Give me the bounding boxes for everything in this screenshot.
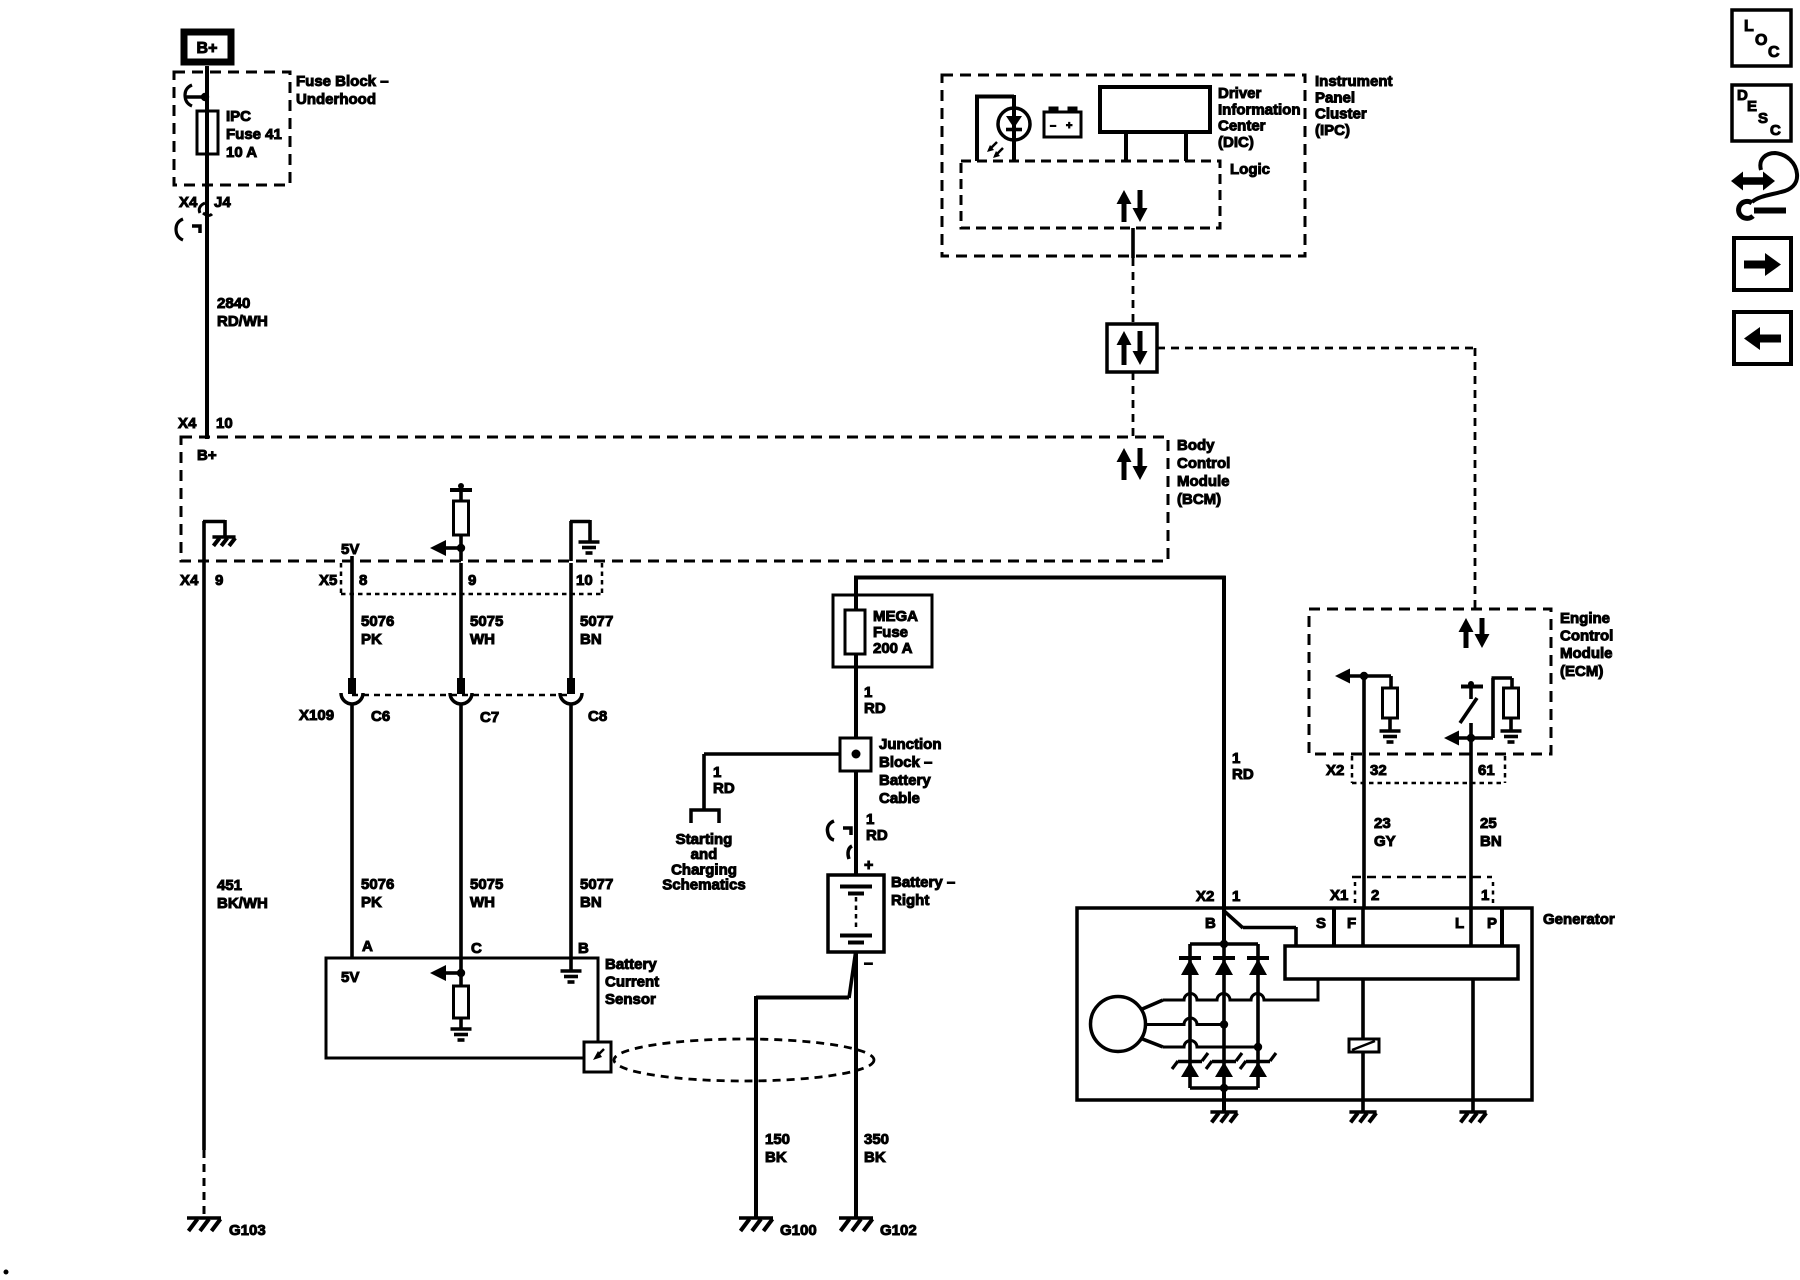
wire 5077 BN lower: [569, 704, 573, 959]
svg-text:Center: Center: [1218, 118, 1266, 135]
svg-text:+: +: [1066, 120, 1072, 132]
Body Control Module BCM box: [181, 437, 1168, 561]
rectifier branches: [1188, 944, 1192, 1088]
svg-text:Generator: Generator: [1543, 911, 1615, 928]
svg-text:Schematics: Schematics: [662, 877, 745, 894]
svg-text:X4: X4: [179, 194, 198, 211]
connector X4 J4 inline hooks: [199, 203, 205, 213]
fuse IPC Fuse 41 10 A: [205, 111, 209, 154]
svg-text:X2: X2: [1196, 888, 1214, 905]
stator phase 3: [1140, 1038, 1163, 1047]
svg-text:C6: C6: [371, 708, 390, 725]
svg-text:Control: Control: [1177, 455, 1230, 472]
wire 23 GY: [1362, 754, 1366, 908]
page mark: [4, 1270, 9, 1275]
svg-text:5075: 5075: [470, 613, 503, 630]
svg-text:BN: BN: [580, 894, 602, 911]
svg-text:5075: 5075: [470, 876, 503, 893]
svg-text:10 A: 10 A: [226, 144, 257, 161]
svg-text:X109: X109: [299, 707, 334, 724]
svg-text:BK: BK: [864, 1149, 886, 1166]
svg-text:MEGA: MEGA: [873, 608, 918, 625]
battery telltale icon: [1044, 112, 1081, 137]
svg-text:G100: G100: [780, 1222, 817, 1239]
svg-text:PK: PK: [361, 894, 382, 911]
wire battery to grounds: [854, 952, 858, 1217]
svg-text:+: +: [864, 857, 873, 874]
svg-text:B: B: [1205, 915, 1216, 932]
svg-text:–: –: [1050, 120, 1056, 132]
svg-text:X4: X4: [180, 572, 199, 589]
ground G103: [187, 1216, 221, 1220]
voltage regulator: [1285, 946, 1518, 979]
svg-text:1: 1: [864, 684, 872, 701]
svg-text:Engine: Engine: [1560, 610, 1610, 627]
svg-text:Sensor: Sensor: [605, 991, 656, 1008]
fuse block terminal clip: [185, 85, 192, 106]
DIC display: [1100, 87, 1210, 132]
svg-text:Underhood: Underhood: [296, 91, 376, 108]
DESC icon: [1732, 85, 1791, 141]
rectifier top rail: [1190, 942, 1258, 946]
wire L to ground: [1469, 908, 1473, 946]
Engine Control Module ECM box: [1309, 609, 1551, 754]
svg-text:9: 9: [215, 572, 223, 589]
svg-text:(ECM): (ECM): [1560, 663, 1603, 680]
wire 5076 PK upper: [350, 563, 354, 680]
svg-text:BN: BN: [1480, 833, 1502, 850]
svg-text:150: 150: [765, 1131, 790, 1148]
BCM internal resistor to supply above pin 9: [459, 548, 463, 561]
svg-text:GY: GY: [1374, 833, 1396, 850]
svg-text:5076: 5076: [361, 876, 394, 893]
generator ground field: [1361, 1100, 1365, 1111]
generator ground L: [1471, 1100, 1475, 1111]
wire F to regulator and field: [1361, 908, 1365, 946]
svg-text:X4: X4: [178, 415, 197, 432]
svg-text:Battery: Battery: [605, 956, 657, 973]
svg-text:1: 1: [1481, 887, 1489, 904]
ECM field control circuit pin 32: [1362, 676, 1366, 754]
svg-text:Right: Right: [891, 892, 929, 909]
MEGA Fuse 200 A box: [833, 595, 932, 667]
svg-text:5076: 5076: [361, 613, 394, 630]
svg-text:Instrument: Instrument: [1315, 73, 1393, 90]
wire 451 BK/WH: [202, 561, 206, 1150]
generator terminal dividers: [1332, 908, 1336, 946]
wire B to regulator: [1223, 910, 1243, 928]
svg-text:C7: C7: [480, 709, 499, 726]
sensor internal resistor to ground on pin C: [459, 958, 463, 986]
Generator box: [1077, 908, 1532, 1100]
svg-text:C: C: [1768, 44, 1780, 61]
svg-text:BK: BK: [765, 1149, 787, 1166]
svg-text:PK: PK: [361, 631, 382, 648]
svg-text:2: 2: [1371, 887, 1379, 904]
svg-text:Cluster: Cluster: [1315, 106, 1367, 123]
svg-text:BK/WH: BK/WH: [217, 895, 268, 912]
BCM internal ground above pin 10: [569, 521, 573, 561]
generator ground rectifier: [1222, 1088, 1226, 1111]
Instrument Panel Cluster IPC box: [942, 75, 1305, 256]
Junction Block - Battery Cable: [840, 738, 871, 771]
inline connector hooks on battery wire: [827, 821, 834, 840]
svg-text:–: –: [864, 955, 873, 972]
rectifier bottom rail: [1190, 1086, 1258, 1090]
svg-text:IPC: IPC: [226, 108, 251, 125]
B+ terminal: [184, 32, 231, 62]
svg-text:Fuse 41: Fuse 41: [226, 126, 282, 143]
wire 5076 PK lower: [350, 704, 354, 959]
wire junction to starting circuits: [704, 752, 840, 756]
charge indicator LED: [1012, 95, 1016, 161]
svg-text:Battery –: Battery –: [891, 874, 955, 891]
svg-text:RD: RD: [713, 780, 735, 797]
sensor internal ground on pin B: [569, 958, 573, 971]
svg-text:BN: BN: [580, 631, 602, 648]
svg-text:(IPC): (IPC): [1315, 122, 1350, 139]
svg-text:Logic: Logic: [1230, 161, 1270, 178]
svg-text:O: O: [1755, 32, 1767, 49]
ground G102: [839, 1216, 873, 1220]
next page icon: [1734, 238, 1791, 290]
wire logic to IPC edge: [1131, 228, 1135, 258]
serial data wire bus to ECM: [1157, 347, 1475, 350]
svg-text:C: C: [1770, 122, 1781, 139]
svg-text:32: 32: [1370, 762, 1387, 779]
svg-text:P: P: [1487, 915, 1497, 932]
svg-text:Fuse: Fuse: [873, 624, 908, 641]
wire fuse to X4 J4: [205, 154, 209, 208]
svg-text:C8: C8: [588, 708, 607, 725]
svg-text:Current: Current: [605, 974, 659, 991]
svg-text:Driver: Driver: [1218, 85, 1262, 102]
svg-text:Information: Information: [1218, 101, 1301, 118]
svg-text:1: 1: [866, 811, 874, 828]
wire B+ rail to generator: [854, 576, 858, 595]
svg-text:25: 25: [1480, 815, 1497, 832]
field coil element: [1349, 1039, 1379, 1052]
svg-text:G103: G103: [229, 1222, 266, 1239]
svg-text:5077: 5077: [580, 613, 613, 630]
wire 5075 WH upper: [459, 563, 463, 680]
Battery Current Sensor box: [326, 958, 598, 1058]
svg-text:(DIC): (DIC): [1218, 134, 1254, 151]
rotor: [1091, 997, 1146, 1052]
charge indicator bracket: [975, 95, 979, 161]
svg-text:A: A: [362, 938, 373, 955]
wire 2840 RD/WH: [205, 208, 209, 439]
svg-text:(BCM): (BCM): [1177, 491, 1221, 508]
svg-text:200 A: 200 A: [873, 640, 913, 657]
svg-text:X2: X2: [1326, 762, 1344, 779]
ground G100: [739, 1216, 773, 1220]
stator phase 2: [1146, 1018, 1224, 1025]
svg-text:Junction: Junction: [879, 736, 942, 753]
svg-text:L: L: [1744, 18, 1754, 35]
stator phase 1 to regulator: [1140, 1000, 1163, 1010]
svg-text:350: 350: [864, 1131, 889, 1148]
sensor clamp element: [584, 1042, 611, 1072]
diagnostic route icon: [1742, 177, 1764, 185]
svg-text:5V: 5V: [341, 541, 359, 558]
svg-text:B: B: [578, 940, 589, 957]
wire 5077 BN upper: [569, 563, 573, 680]
connector X1 pin row: [1352, 876, 1492, 879]
svg-text:Panel: Panel: [1315, 89, 1355, 106]
svg-text:10: 10: [576, 572, 593, 589]
serial data wire bus to BCM: [1132, 372, 1135, 437]
wire 5075 WH lower: [459, 704, 463, 959]
BCM serial data arrows: [1122, 460, 1127, 480]
svg-text:5077: 5077: [580, 876, 613, 893]
svg-text:Block –: Block –: [879, 754, 932, 771]
serial data wire IPC to bus box: [1132, 258, 1135, 324]
off-page bracket starting circuits: [691, 810, 719, 823]
svg-text:B+: B+: [197, 447, 217, 464]
sensor clamp dashed ellipse: [614, 1039, 874, 1081]
Logic box: [961, 161, 1220, 228]
svg-text:10: 10: [216, 415, 233, 432]
wire clip to fuse: [205, 75, 209, 112]
svg-text:RD: RD: [1232, 766, 1254, 783]
Fuse Block - Underhood box: [174, 72, 290, 185]
svg-text:5V: 5V: [341, 969, 359, 986]
svg-text:8: 8: [359, 572, 367, 589]
IPC serial data arrows: [1122, 202, 1127, 222]
ECM serial data arrows: [1464, 630, 1469, 648]
svg-text:1: 1: [1232, 750, 1240, 767]
svg-text:S: S: [1758, 110, 1768, 127]
wire junction to battery: [854, 771, 858, 876]
svg-text:X5: X5: [319, 572, 337, 589]
svg-text:Control: Control: [1560, 628, 1613, 645]
svg-text:451: 451: [217, 877, 242, 894]
svg-text:E: E: [1747, 98, 1757, 115]
svg-text:WH: WH: [470, 631, 495, 648]
svg-text:B+: B+: [197, 40, 218, 57]
Battery - Right: [828, 875, 884, 952]
svg-text:X1: X1: [1330, 887, 1348, 904]
wire B into rectifier: [1222, 908, 1226, 944]
svg-text:Fuse Block –: Fuse Block –: [296, 73, 389, 90]
svg-text:Module: Module: [1177, 473, 1230, 490]
connector X109 dashed link: [352, 694, 571, 697]
svg-text:WH: WH: [470, 894, 495, 911]
rectifier bottom diodes: [1181, 1062, 1199, 1077]
svg-text:9: 9: [468, 572, 476, 589]
svg-text:23: 23: [1374, 815, 1391, 832]
svg-text:S: S: [1316, 915, 1326, 932]
svg-text:F: F: [1347, 915, 1356, 932]
svg-text:Cable: Cable: [879, 790, 920, 807]
harness clip below J4: [176, 219, 183, 240]
svg-text:G102: G102: [880, 1222, 917, 1239]
svg-text:RD: RD: [866, 827, 888, 844]
serial data bus box: [1107, 324, 1157, 372]
svg-text:Body: Body: [1177, 437, 1215, 454]
svg-text:Battery: Battery: [879, 772, 931, 789]
svg-text:RD: RD: [864, 700, 886, 717]
wire 25 BN: [1469, 754, 1473, 908]
rectifier top diodes: [1179, 956, 1201, 960]
BCM internal ground at X4-9: [202, 521, 206, 561]
wire B+ to fuse block: [205, 66, 209, 75]
svg-text:2840: 2840: [217, 295, 250, 312]
svg-text:1: 1: [713, 764, 721, 781]
LOC icon: [1732, 10, 1791, 66]
svg-text:RD/WH: RD/WH: [217, 313, 268, 330]
ECM lamp driver circuit pin 61: [1469, 723, 1473, 754]
svg-text:61: 61: [1478, 762, 1495, 779]
previous page icon: [1734, 312, 1791, 364]
ECM switch: [1461, 685, 1483, 689]
svg-text:J4: J4: [214, 194, 231, 211]
svg-text:L: L: [1455, 915, 1464, 932]
svg-text:1: 1: [1232, 888, 1240, 905]
svg-text:Module: Module: [1560, 645, 1613, 662]
svg-text:C: C: [471, 940, 482, 957]
LED light arrows: [989, 142, 997, 150]
